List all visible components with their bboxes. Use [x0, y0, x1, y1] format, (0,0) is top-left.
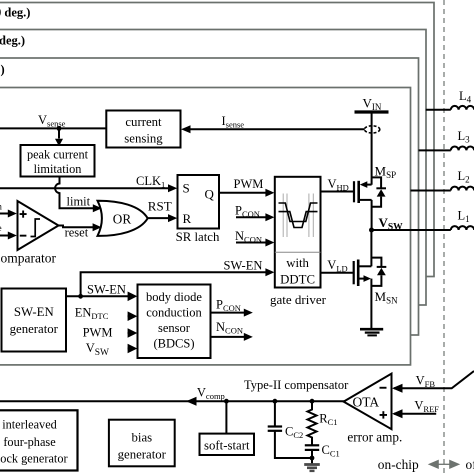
svg-text:four-phase: four-phase	[3, 435, 56, 449]
junction CC1 bottom	[310, 456, 315, 461]
SR latch U-srlatch	[178, 175, 220, 229]
on-chip / off-chip dashed boundary	[443, 0, 445, 474]
svg-text:current: current	[125, 115, 162, 129]
wire phase2 output	[411, 190, 451, 192]
svg-text:bias: bias	[131, 430, 152, 444]
junction on Vsense wire	[57, 126, 62, 131]
inductor L3	[451, 146, 474, 150]
wire phase4 output	[426, 109, 451, 111]
wire SW-EN to gate driver	[81, 272, 267, 296]
phase panel 4 (back)	[0, 3, 434, 277]
svg-text:R: R	[183, 211, 192, 226]
wire limit (with hop over CLK1)	[55, 177, 94, 209]
svg-text:sensing: sensing	[124, 131, 163, 145]
wire Vsense to peak current limitation	[58, 128, 60, 138]
svg-text:SW-EN: SW-EN	[224, 259, 263, 273]
wire VREF into OTA	[394, 413, 436, 415]
comparator + input	[20, 211, 27, 218]
wire VSW to L1	[372, 229, 451, 231]
svg-text:gate driver: gate driver	[270, 292, 327, 307]
phase panel 3	[0, 30, 426, 306]
svg-text:interleaved: interleaved	[2, 418, 57, 432]
inductor L4	[451, 106, 474, 110]
wire CLK1 to SR latch S	[0, 187, 169, 189]
svg-text:0 deg.): 0 deg.)	[0, 6, 30, 20]
comparator (current comparator)	[18, 201, 59, 250]
gate driver DDTC waveform timing lines	[283, 194, 313, 238]
transistor MSN (NMOS)	[354, 230, 387, 329]
phase panel 1 (front, main)	[0, 88, 411, 365]
wire VFB into OTA	[394, 371, 474, 388]
svg-text:SW-EN: SW-EN	[87, 282, 126, 296]
wire SW-EN generator to BDCS	[66, 295, 130, 297]
phase panel 2	[0, 58, 419, 335]
wire VHD (gate driver to MSP gate)	[321, 191, 354, 193]
svg-text:OTA: OTA	[353, 395, 380, 410]
comparator - input	[20, 235, 27, 237]
wire VSW into BDCS	[128, 348, 130, 350]
wire VIN rail down to MSP	[371, 112, 373, 185]
wire phase3 output	[419, 149, 451, 151]
soft-start block	[200, 434, 255, 455]
svg-text:RST: RST	[148, 198, 172, 213]
capacitor CC1	[305, 445, 319, 463]
wire reset (comparator output to OR)	[59, 226, 95, 228]
svg-text:SR latch: SR latch	[176, 230, 220, 244]
gate driver DDTC waveform traces	[279, 203, 318, 228]
svg-text:SW-EN: SW-EN	[14, 305, 54, 319]
wire comparator input B	[0, 235, 9, 237]
comparator hysteresis symbol	[31, 219, 41, 237]
wire Pcon output of BDCS	[211, 312, 246, 314]
junction CC2 tap	[273, 399, 278, 404]
svg-text:e: e	[0, 223, 2, 233]
wire Pcon into gate driver	[236, 216, 267, 218]
svg-text:on-chip: on-chip	[378, 457, 419, 472]
transistor MSP (PMOS)	[354, 177, 386, 230]
gate driver U-gatedriver	[275, 177, 321, 288]
OTA + input	[380, 411, 387, 418]
svg-text:reset: reset	[65, 225, 89, 239]
svg-text:OR: OR	[113, 211, 132, 226]
ground under MSN	[360, 329, 383, 335]
inductor L1	[451, 226, 474, 230]
svg-text:(BDCS): (BDCS)	[154, 336, 195, 350]
capacitor CC2	[268, 401, 312, 458]
wire RST (OR output to SR latch R)	[147, 217, 169, 219]
svg-text:limit: limit	[67, 195, 91, 209]
Isense sampling loop (dashed ellipse)	[364, 126, 379, 133]
wire Ncon into gate driver	[236, 242, 267, 244]
svg-text:limitation: limitation	[34, 162, 82, 176]
svg-text:comparator: comparator	[0, 251, 56, 266]
svg-text:S: S	[183, 181, 190, 196]
wire ENdtc into BDCS	[128, 315, 130, 317]
svg-text:generator: generator	[10, 322, 59, 336]
wire VLD (gate driver to MSN gate)	[321, 272, 353, 274]
resistor RC1	[308, 401, 317, 445]
wire Vcomp (compensator output, to left edge)	[0, 400, 345, 402]
peak current limitation block	[21, 145, 95, 177]
OTA - input	[380, 387, 387, 389]
svg-text:DDTC: DDTC	[280, 272, 315, 286]
svg-text:PWM: PWM	[234, 177, 264, 191]
svg-text:deg.): deg.)	[0, 34, 25, 48]
wire PWM (Q to gate driver)	[219, 192, 267, 194]
wire Isense	[189, 128, 365, 130]
junction SW-EN	[78, 294, 83, 299]
svg-text:CLK1: CLK1	[136, 174, 165, 190]
on-chip/off-chip double arrow	[429, 460, 459, 468]
node VSW	[369, 228, 374, 233]
OR gate U-or	[98, 201, 148, 236]
ground (compensator)	[304, 465, 320, 471]
svg-text:Q: Q	[205, 187, 215, 202]
op-amp OTA error amplifier	[344, 374, 392, 430]
svg-text:): )	[1, 63, 5, 77]
svg-text:body diode: body diode	[146, 290, 202, 304]
svg-text:generator: generator	[118, 447, 167, 461]
wire Vsense	[0, 127, 106, 129]
svg-text:clock generator: clock generator	[0, 452, 68, 466]
current sensing U-currentsense	[106, 111, 180, 148]
body diode conduction sensor BDCS block	[138, 285, 211, 359]
svg-text:PWM: PWM	[83, 325, 113, 339]
svg-text:error amp.: error amp.	[347, 430, 402, 445]
svg-text:off-chip: off-chip	[466, 457, 474, 472]
power rail VIN	[355, 110, 389, 113]
wire soft-start riser	[225, 401, 227, 433]
SW-EN generator block	[2, 289, 67, 352]
svg-text:conduction: conduction	[146, 305, 202, 319]
inductor L2	[451, 187, 474, 191]
svg-text:Type-II compensator: Type-II compensator	[244, 378, 349, 392]
svg-text:with: with	[286, 256, 309, 270]
svg-text:sensor: sensor	[158, 321, 191, 335]
wire PWM into BDCS	[128, 332, 130, 334]
wire comparator input A	[0, 213, 9, 215]
bias generator block	[109, 420, 175, 467]
wire Ncon output of BDCS	[211, 336, 246, 338]
junction soft-start tap	[224, 399, 229, 404]
junction RC1 tap	[310, 399, 315, 404]
svg-text:soft-start: soft-start	[204, 439, 250, 453]
svg-text:peak current: peak current	[27, 147, 89, 161]
interleaved four-phase clock generator block	[0, 410, 78, 470]
